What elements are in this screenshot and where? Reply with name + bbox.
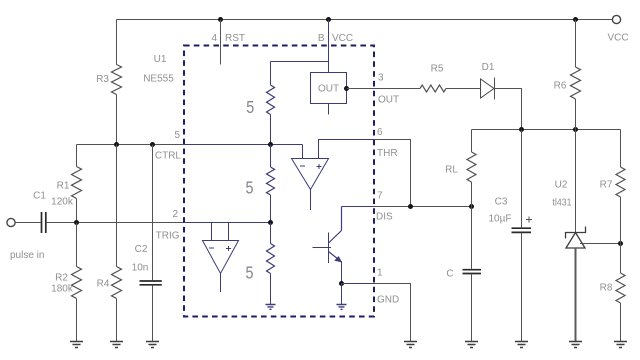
wire C2 branch vertical (crosses TRIG) xyxy=(152,145,154,281)
svg-text:C: C xyxy=(446,269,453,280)
wire DIS node to C xyxy=(471,207,473,269)
svg-text:R4: R4 xyxy=(97,279,110,290)
resistor R7 xyxy=(616,167,625,197)
node dot R6-U2 on mid rail xyxy=(573,127,578,132)
wire R6 top lead xyxy=(575,20,577,68)
node dot D1-C3 on mid rail xyxy=(519,127,524,132)
resistor RL xyxy=(467,152,476,182)
ground (C branch) xyxy=(465,342,478,348)
op-amp comparator B (TRIG) xyxy=(203,241,239,274)
wire TRIG external (pin 2) xyxy=(47,222,184,224)
wire U2 ref to R7-R8 node xyxy=(580,243,621,245)
resistor R3 xyxy=(112,65,122,95)
wire terminal to C1 xyxy=(15,222,41,224)
svg-text:NE555: NE555 xyxy=(143,74,174,85)
C3 polarity plus xyxy=(526,217,532,223)
svg-text:R7: R7 xyxy=(600,180,613,191)
svg-text:RST: RST xyxy=(225,33,245,44)
node dot DIS-RL-C xyxy=(469,204,474,209)
svg-text:1: 1 xyxy=(377,268,383,279)
svg-text:R6: R6 xyxy=(554,81,567,92)
svg-text:C1: C1 xyxy=(33,191,46,202)
wire pin 3 OUT to R5 xyxy=(347,88,421,90)
svg-text:R2: R2 xyxy=(55,273,68,284)
svg-text:D1: D1 xyxy=(482,62,495,73)
wire R1 branch top lead xyxy=(76,145,78,167)
svg-text:C2: C2 xyxy=(135,244,148,255)
wire R7 bottom to ref node xyxy=(620,197,622,244)
transistor Q1 emitter arrow xyxy=(335,257,341,262)
svg-text:VCC: VCC xyxy=(607,33,628,44)
wire comparator A output stub xyxy=(310,190,312,211)
node dot THR-DIS xyxy=(408,204,413,209)
svg-text:U2: U2 xyxy=(555,180,568,191)
transistor Q1 base lead xyxy=(313,247,332,249)
resistor divider 5k middle xyxy=(270,145,272,168)
svg-text:5: 5 xyxy=(246,97,254,117)
wire U2 anode to ground (thick) xyxy=(575,248,577,342)
resistor divider 5k bottom xyxy=(270,223,272,244)
node dot RST on rail xyxy=(218,17,223,22)
resistor R6 xyxy=(571,67,581,99)
wire GND external (pin 1) xyxy=(374,284,411,342)
terminal VCC top right xyxy=(612,15,620,23)
op-amp U1 NE555 dashed boundary xyxy=(184,46,374,317)
svg-text:R5: R5 xyxy=(431,64,444,75)
resistor R8 xyxy=(616,273,625,303)
node dot R3-R4 on CTRL xyxy=(114,142,119,147)
shunt regulator U2 tl431 triangle xyxy=(566,233,585,249)
transistor Q1 emitter xyxy=(329,252,341,262)
wire R1 bottom to TRIG xyxy=(76,199,78,223)
shunt regulator U2 tl431 cathode bar xyxy=(566,227,586,239)
node dot C2 on CTRL xyxy=(150,142,155,147)
ground (C3 branch) xyxy=(515,342,528,348)
ground (C2 branch) xyxy=(146,342,159,348)
svg-text:7: 7 xyxy=(377,191,383,202)
wire TRIG internal with comparator B input drops xyxy=(184,223,271,241)
node dot R1-R2 on TRIG xyxy=(74,220,79,225)
ground (R8 branch) xyxy=(614,342,627,348)
resistor R4 xyxy=(112,267,122,299)
block OUT driver xyxy=(311,73,347,104)
svg-text:10n: 10n xyxy=(132,263,149,274)
wire GND internal (pin 1) xyxy=(342,284,375,305)
svg-text:U1: U1 xyxy=(154,54,167,65)
wire R3 bottom to CTRL line xyxy=(116,95,118,145)
wire ref node to R8 xyxy=(620,244,622,274)
svg-text:5: 5 xyxy=(245,178,253,198)
svg-text:GND: GND xyxy=(377,295,399,306)
resistor R5 xyxy=(420,85,446,92)
svg-text:CTRL: CTRL xyxy=(155,151,182,162)
resistor R2 xyxy=(76,223,78,267)
svg-text:pulse in: pulse in xyxy=(10,250,44,261)
wire C3 bottom to ground xyxy=(521,233,523,341)
svg-text:OUT: OUT xyxy=(378,95,399,106)
wire CTRL external (pin 5) xyxy=(77,144,185,146)
svg-text:C3: C3 xyxy=(495,197,508,208)
node dot OUT block output xyxy=(344,86,349,91)
node dot divider CTRL xyxy=(268,142,273,147)
wire R7 top lead from mid rail xyxy=(620,130,622,168)
terminal pulse in xyxy=(7,218,15,226)
resistor divider 5k top xyxy=(267,85,275,114)
wire R2 bottom to ground xyxy=(76,299,78,342)
wire R8 bottom to ground xyxy=(620,303,622,342)
svg-text:R3: R3 xyxy=(96,74,109,85)
svg-text:TRIG: TRIG xyxy=(156,231,180,242)
comparator B minus sign xyxy=(209,247,214,249)
capacitor C xyxy=(463,270,482,274)
wire OUT block bottom stub xyxy=(328,104,330,115)
comparator A plus sign xyxy=(317,164,322,169)
wire R6 bottom to mid rail xyxy=(575,99,577,130)
capacitor C1 xyxy=(42,212,46,233)
wire pin8 internal drop to OUT block xyxy=(328,20,330,73)
resistor R1 xyxy=(72,167,82,199)
ground (U2 branch) xyxy=(569,342,582,348)
diode D1 xyxy=(481,79,495,98)
wire DIS internal (pin 7) xyxy=(342,206,375,208)
svg-text:4: 4 xyxy=(211,33,217,44)
transistor Q1 collector xyxy=(329,207,342,244)
comparator A minus sign xyxy=(300,165,305,167)
wire C3 branch vertical xyxy=(521,130,523,228)
svg-text:180k: 180k xyxy=(51,284,74,295)
ground internal (emitter) xyxy=(337,305,347,310)
svg-text:3: 3 xyxy=(378,73,384,84)
svg-text:VCC: VCC xyxy=(332,33,353,44)
node dot divider TRIG xyxy=(268,220,273,225)
wire C bottom to ground xyxy=(471,274,473,341)
svg-text:5: 5 xyxy=(174,130,180,141)
svg-text:2: 2 xyxy=(172,209,178,220)
wire R4 branch vertical (crosses TRIG) xyxy=(116,145,118,267)
wire R5 to D1 xyxy=(446,88,480,90)
ground (R2 branch) xyxy=(70,342,83,348)
node dot pin8 on rail xyxy=(326,17,331,22)
wire pin 4 RST drop xyxy=(220,20,222,65)
wire top VCC rail xyxy=(117,19,613,21)
svg-text:B: B xyxy=(318,33,325,44)
svg-text:R8: R8 xyxy=(600,283,613,294)
svg-text:120k: 120k xyxy=(51,197,74,208)
op-amp comparator A (THR) xyxy=(292,159,329,190)
wire D1 to C3 branch corner xyxy=(495,89,522,130)
wire U2 cathode lead xyxy=(575,130,577,233)
svg-text:5: 5 xyxy=(245,263,253,283)
svg-text:10µF: 10µF xyxy=(489,214,512,225)
ground (R4 branch) xyxy=(110,342,123,348)
svg-text:RL: RL xyxy=(445,165,458,176)
wire C2 bottom to ground xyxy=(152,286,154,342)
wire mid rail RL to R7 xyxy=(472,129,621,131)
ground (pin 1) xyxy=(404,342,417,348)
wire comparator A plus input from THR xyxy=(319,140,375,159)
svg-text:R1: R1 xyxy=(57,181,70,192)
node dot R6 on rail xyxy=(573,17,578,22)
wire 5k bottom to internal ground xyxy=(270,274,272,305)
wire left rail down from top xyxy=(116,20,118,65)
svg-text:DIS: DIS xyxy=(376,212,393,223)
wire 5k top to CTRL node xyxy=(270,115,272,145)
capacitor C3 xyxy=(512,228,532,232)
wire RL bottom to DIS node xyxy=(471,182,473,207)
wire divider top feed xyxy=(271,62,329,86)
wire R4 bottom to ground xyxy=(116,299,118,342)
capacitor C2 xyxy=(140,281,162,285)
wire comparator B output stub xyxy=(220,274,222,293)
wire DIS external (pin 7) xyxy=(374,206,472,208)
diode D1 cathode bar xyxy=(494,78,496,100)
svg-text:tl431: tl431 xyxy=(553,198,572,209)
ground internal (divider) xyxy=(266,305,276,310)
wire RL top lead xyxy=(471,130,473,153)
transistor Q1 base bar xyxy=(328,233,330,264)
wire CTRL internal to comparator A minus xyxy=(184,145,303,159)
comparator B plus sign xyxy=(226,246,231,251)
wire 5k middle to TRIG node xyxy=(270,195,272,223)
svg-text:6: 6 xyxy=(377,127,383,138)
svg-text:THR: THR xyxy=(377,148,398,159)
wire THR external (pin 6) xyxy=(374,140,411,207)
node dot ref R7-R8 xyxy=(618,241,623,246)
svg-text:OUT: OUT xyxy=(318,84,339,95)
node dot emitter GND xyxy=(339,281,344,286)
wire emitter down to GND node xyxy=(341,261,343,284)
